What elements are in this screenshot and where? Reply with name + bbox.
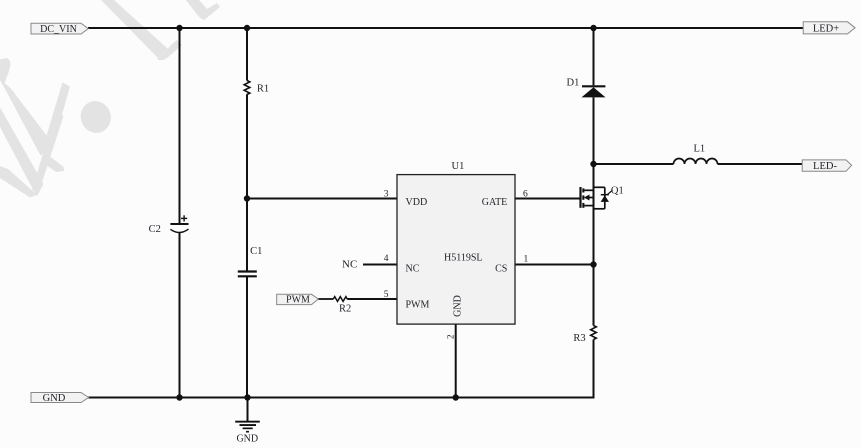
- svg-text:LED+: LED+: [813, 24, 839, 35]
- port GND flag: [31, 393, 89, 405]
- pin 6 GATE: [482, 190, 528, 209]
- svg-text:C1: C1: [250, 246, 262, 257]
- wire GATE pin 6 to Q1 gate: [515, 198, 580, 200]
- svg-text:4: 4: [384, 254, 389, 264]
- svg-text:5: 5: [384, 290, 389, 300]
- port LED+: [803, 22, 855, 35]
- svg-text:D1: D1: [567, 78, 580, 89]
- svg-text:CS: CS: [495, 263, 507, 274]
- wire U1 GND pin 2: [455, 324, 457, 397]
- node top R1 junction: [244, 25, 250, 31]
- wire C1 lower: [246, 277, 248, 398]
- svg-text:GND: GND: [236, 434, 258, 445]
- svg-text:Q1: Q1: [611, 186, 624, 197]
- wire CS pin 1 to node: [515, 264, 594, 266]
- node bottom U1 GND junction: [453, 394, 459, 400]
- wire R1 branch upper: [246, 28, 248, 81]
- pin 3 VDD: [384, 190, 427, 209]
- wire NC pin 4: [363, 264, 397, 266]
- svg-text:PWM: PWM: [286, 295, 310, 306]
- svg-text:C2: C2: [149, 224, 161, 235]
- wire R1 to VDD node: [246, 95, 248, 271]
- wire VDD pin 3: [247, 198, 397, 200]
- wire L1 left segment: [594, 163, 674, 165]
- ground: [235, 421, 260, 445]
- node top D1 junction: [590, 25, 596, 31]
- svg-text:6: 6: [523, 190, 528, 200]
- wire R2 to PWM pin 5: [347, 298, 397, 300]
- wire R3 to bottom rail: [593, 340, 595, 399]
- svg-text:R1: R1: [257, 84, 269, 95]
- capacitor C2 (polarized): [149, 215, 189, 235]
- svg-text:LED-: LED-: [813, 161, 837, 172]
- svg-text:DC_VIN: DC_VIN: [40, 24, 77, 35]
- diode D1: [567, 78, 606, 98]
- wire ground stem: [247, 398, 249, 422]
- pin 5 PWM: [384, 290, 430, 311]
- wire C2 branch lower: [179, 233, 181, 398]
- port LED-: [802, 160, 851, 172]
- transistor Q1 (N-MOSFET): [581, 186, 624, 209]
- svg-text:GATE: GATE: [482, 197, 508, 208]
- inductor L1: [674, 144, 718, 165]
- svg-text:R2: R2: [339, 303, 351, 314]
- node bottom C2 junction: [176, 394, 182, 400]
- wire Q1 source to CS node: [593, 190, 595, 264]
- node top C2 junction: [176, 25, 182, 31]
- node bottom ground junction: [244, 394, 250, 400]
- resistor R1: [244, 81, 269, 96]
- svg-text:R3: R3: [573, 333, 585, 344]
- node VDD junction: [244, 195, 250, 201]
- resistor R2: [333, 297, 351, 315]
- svg-text:U1: U1: [452, 161, 465, 172]
- svg-text:2: 2: [445, 335, 455, 340]
- svg-text:GND: GND: [43, 393, 66, 404]
- svg-text:L1: L1: [694, 144, 706, 155]
- pin 2 GND: [445, 295, 463, 339]
- node D1-L1-Q1 junction: [590, 161, 596, 167]
- wire bottom rail GND: [88, 397, 595, 399]
- wire C2 branch upper: [179, 28, 181, 224]
- svg-text:NC: NC: [406, 263, 420, 274]
- wire Q1 drain: [593, 164, 595, 190]
- pin 1 CS: [495, 255, 528, 275]
- wire D1 to L1 node: [593, 97, 595, 164]
- port DC_VIN: [31, 23, 88, 35]
- svg-text:GND: GND: [452, 295, 463, 317]
- node CS-R3-Q1 junction: [590, 261, 596, 267]
- wire PWM flag to R2: [318, 298, 333, 300]
- wire top rail DC_VIN to LED+: [88, 27, 803, 29]
- resistor R3: [573, 326, 596, 345]
- svg-text:H5119SL: H5119SL: [444, 252, 483, 263]
- svg-text:VDD: VDD: [406, 197, 428, 208]
- pin 4 NC: [384, 254, 420, 274]
- svg-text:NC: NC: [342, 258, 357, 270]
- wire D1 branch upper: [593, 28, 595, 85]
- wire CS node to R3: [593, 265, 595, 326]
- wire L1 right segment to LED-: [718, 163, 803, 165]
- svg-text:3: 3: [384, 190, 389, 200]
- svg-text:1: 1: [524, 255, 529, 265]
- svg-text:PWM: PWM: [406, 300, 430, 311]
- port PWM: [277, 294, 319, 305]
- IC U1 (H5119SL): [397, 161, 515, 324]
- capacitor C1: [238, 246, 263, 276]
